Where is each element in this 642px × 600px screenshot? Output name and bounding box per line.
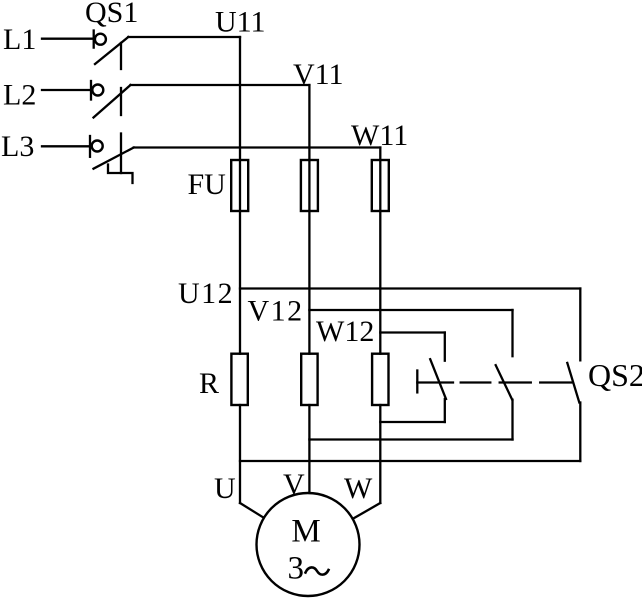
svg-text:QS2: QS2 bbox=[588, 357, 642, 393]
wire L3 input bbox=[42, 145, 90, 147]
svg-text:V12: V12 bbox=[248, 295, 304, 328]
wire W11 horizontal bbox=[134, 146, 381, 148]
switch QS1 pole 3 terminal circle bbox=[92, 141, 103, 152]
switch QS1 pole 2 blade bbox=[94, 85, 131, 118]
wire U11 horizontal bbox=[128, 36, 240, 38]
switch QS1 pole 3 blade bbox=[94, 148, 134, 169]
svg-text:W12: W12 bbox=[316, 315, 374, 348]
switch QS1 pole 1 blade bbox=[95, 37, 128, 64]
wire V11 vertical bus bbox=[308, 85, 310, 354]
switch QS1 pole 1 linkage bbox=[120, 43, 122, 69]
motor M circle bbox=[257, 493, 360, 596]
switch QS1 pole 2 linkage bbox=[120, 88, 122, 115]
switch QS2 linkage dashed line bbox=[417, 381, 453, 383]
fuse FU phase U bbox=[231, 160, 248, 211]
switch QS1 pole 3 terminal bar bbox=[89, 136, 91, 157]
resistor R phase V bbox=[301, 354, 317, 405]
switch QS2 pole 1 blade bbox=[430, 359, 446, 399]
svg-text:L3: L3 bbox=[1, 130, 34, 163]
switch QS2 pole 3 top terminal bbox=[579, 289, 581, 361]
wire L1 input bbox=[42, 38, 93, 40]
switch QS2 pole 1 fixed contact bar bbox=[416, 371, 418, 393]
switch QS1 handle foot bbox=[108, 165, 133, 184]
switch QS2 pole 1 bottom terminal bbox=[444, 399, 446, 422]
svg-text:L1: L1 bbox=[3, 23, 36, 56]
wire node W12 branch bbox=[380, 331, 445, 333]
wire QS2 pole 1 return to W phase bbox=[380, 421, 445, 423]
svg-text:FU: FU bbox=[188, 168, 227, 201]
wire W11 vertical bus bbox=[379, 148, 381, 354]
resistor R phase U bbox=[231, 354, 247, 405]
wire U phase below resistor bbox=[239, 405, 241, 503]
svg-text:U: U bbox=[214, 472, 236, 505]
svg-text:QS1: QS1 bbox=[85, 0, 138, 29]
switch QS2 pole 3 blade bbox=[567, 363, 579, 403]
wire V phase below resistor bbox=[308, 405, 310, 493]
svg-text:M: M bbox=[291, 513, 320, 549]
switch QS1 pole 2 terminal bar bbox=[90, 81, 92, 100]
wire QS2 pole 3 return to U phase bbox=[240, 460, 580, 462]
switch QS1 pole 3 linkage bbox=[120, 134, 122, 174]
switch QS2 pole 3 bottom terminal bbox=[579, 403, 581, 462]
wire motor lead W diagonal bbox=[353, 503, 380, 519]
wire W phase below resistor bbox=[379, 405, 381, 503]
wire V11 horizontal bbox=[131, 84, 310, 86]
wire L2 input bbox=[42, 89, 91, 91]
switch QS2 pole 1 top terminal bbox=[444, 333, 446, 361]
switch QS1 pole 1 terminal bar bbox=[93, 31, 95, 48]
svg-text:L2: L2 bbox=[3, 79, 36, 112]
svg-text:R: R bbox=[199, 367, 219, 400]
switch QS2 pole 2 blade bbox=[496, 365, 513, 400]
svg-text:W: W bbox=[344, 472, 373, 505]
switch QS1 pole 1 terminal circle bbox=[95, 34, 106, 45]
wire QS2 pole 2 return to V phase bbox=[309, 438, 512, 440]
svg-text:3: 3 bbox=[288, 550, 305, 586]
wire node V12 branch bbox=[309, 309, 512, 311]
wire node U12 branch bbox=[240, 287, 580, 289]
switch QS2 pole 2 bottom terminal bbox=[511, 400, 513, 440]
switch QS2 pole 2 top terminal bbox=[511, 310, 513, 356]
svg-text:V11: V11 bbox=[293, 58, 344, 91]
fuse FU phase V bbox=[301, 160, 318, 211]
wire motor lead U diagonal bbox=[240, 503, 264, 518]
fuse FU phase W bbox=[372, 160, 389, 211]
svg-text:U11: U11 bbox=[215, 6, 266, 39]
wire U11 vertical bus bbox=[239, 37, 241, 354]
resistor R phase W bbox=[372, 354, 388, 405]
switch QS1 pole 2 terminal circle bbox=[92, 85, 103, 96]
motor label tilde bbox=[306, 567, 329, 574]
svg-text:U12: U12 bbox=[178, 277, 234, 310]
